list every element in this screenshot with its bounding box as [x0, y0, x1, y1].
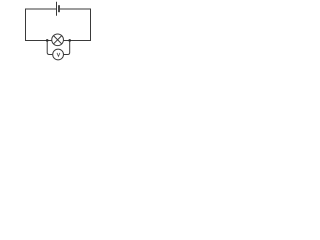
battery cell long plate (positive) [56, 2, 58, 16]
lamp L1 circle [52, 34, 64, 46]
voltmeter V1 circle [53, 49, 64, 60]
wire top-right lead [60, 8, 91, 10]
wire voltmeter branch right [64, 41, 70, 55]
wire right side [90, 9, 92, 42]
wire middle horizontal [25, 40, 91, 42]
wire left side [25, 9, 27, 42]
battery cell short plate (negative) [58, 5, 60, 12]
node junction left [46, 39, 49, 42]
node junction right [68, 39, 71, 42]
wire top-left lead [25, 8, 57, 10]
voltmeter V1 label [57, 53, 60, 56]
lamp L1 cross [53, 36, 61, 44]
wire voltmeter branch left [47, 41, 52, 55]
